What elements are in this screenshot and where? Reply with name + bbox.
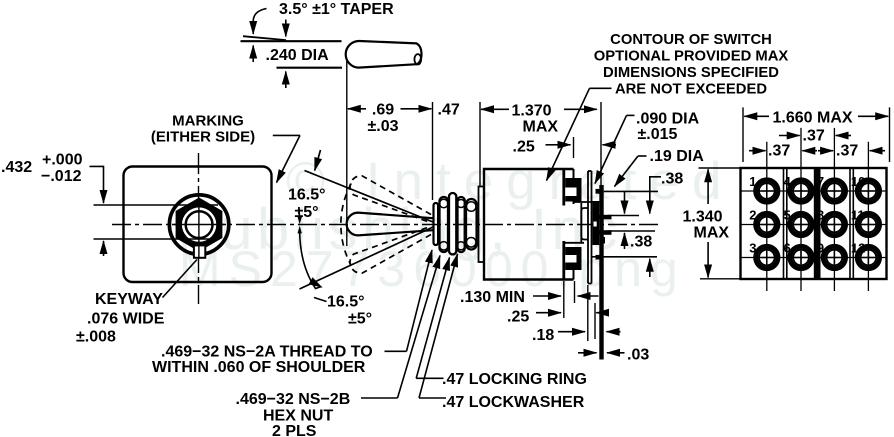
keyway leader bbox=[163, 260, 198, 298]
upper boss face bbox=[573, 169, 575, 204]
terminal 4 bbox=[790, 180, 812, 202]
center terminal through plate bbox=[593, 201, 600, 245]
svg-text:.47: .47 bbox=[438, 102, 460, 119]
svg-text:1.660 MAX: 1.660 MAX bbox=[773, 110, 853, 127]
svg-text:.37: .37 bbox=[836, 143, 858, 160]
svg-text:1: 1 bbox=[749, 174, 756, 189]
.38 middle arrows bbox=[624, 233, 626, 249]
.38 upper dim line with arrows bbox=[649, 190, 651, 214]
taper dim arrows left pair bbox=[252, 21, 254, 34]
lever tip detail outline bbox=[346, 41, 422, 68]
svg-text:2: 2 bbox=[749, 208, 756, 223]
svg-text:.18: .18 bbox=[532, 327, 554, 344]
svg-text:9: 9 bbox=[817, 241, 824, 256]
upper screw head bbox=[565, 178, 581, 202]
.090 dia leader bbox=[627, 114, 635, 116]
svg-text:±5°: ±5° bbox=[295, 204, 319, 221]
lockwasher leader bbox=[419, 397, 446, 399]
dimension 1.370 line bbox=[481, 108, 509, 110]
recessed face line bbox=[580, 203, 582, 244]
terminal 9 bbox=[823, 246, 845, 268]
svg-text:±.008: ±.008 bbox=[76, 329, 116, 346]
svg-text:.47 LOCKING RING: .47 LOCKING RING bbox=[442, 371, 587, 388]
svg-text:.432: .432 bbox=[1, 159, 32, 176]
hex nut leader bbox=[361, 397, 398, 399]
hex nut ring 2 bbox=[466, 199, 477, 250]
lower terminal stub line bbox=[592, 256, 658, 258]
svg-text:1.340: 1.340 bbox=[683, 209, 723, 226]
lockwasher ring 2 bbox=[458, 197, 465, 252]
column separator 2 bbox=[849, 169, 851, 278]
svg-text:.38: .38 bbox=[661, 171, 683, 188]
upper terminal stub line bbox=[604, 190, 658, 192]
svg-text:6: 6 bbox=[784, 241, 791, 256]
terminal bottom line bbox=[608, 230, 655, 232]
extension lines below body bbox=[563, 281, 565, 318]
dashed throw arc bbox=[341, 184, 351, 266]
svg-text:3: 3 bbox=[749, 241, 756, 256]
svg-text:.37: .37 bbox=[768, 143, 790, 160]
svg-text:5: 5 bbox=[784, 208, 791, 223]
panel vertical center line bbox=[198, 153, 200, 304]
svg-text:10: 10 bbox=[851, 174, 865, 189]
body right face upper bbox=[562, 169, 565, 206]
body face extension line bbox=[479, 102, 481, 186]
svg-text:8: 8 bbox=[817, 208, 824, 223]
svg-text:11: 11 bbox=[851, 208, 865, 223]
upper dashed lever position bbox=[350, 176, 431, 222]
terminal 7 bbox=[823, 180, 845, 202]
panel horizontal center line (main axis) bbox=[112, 224, 658, 226]
locking ring (small) bbox=[434, 203, 439, 245]
dia dim arrows right pair bbox=[285, 20, 287, 37]
terminal plate bbox=[587, 171, 589, 284]
hex nut ring 1 bbox=[449, 193, 456, 254]
svg-text:±5°: ±5° bbox=[348, 311, 372, 328]
bushing outer circle bbox=[169, 195, 228, 254]
terminal 3 bbox=[756, 246, 778, 268]
rear body outline bbox=[741, 168, 887, 279]
keyway notch bbox=[194, 245, 205, 257]
locking ring leader bbox=[416, 377, 443, 379]
body right face lower bbox=[562, 241, 565, 280]
row center lines bbox=[742, 190, 886, 192]
.25 dimension bbox=[536, 312, 561, 314]
terminal 1 bbox=[756, 180, 778, 202]
.130 min dimension bbox=[533, 295, 561, 297]
svg-text:MAX: MAX bbox=[694, 225, 730, 242]
lower dashed lever position bbox=[350, 227, 431, 273]
svg-text:ARE NOT EXCEEDED: ARE NOT EXCEEDED bbox=[615, 82, 767, 98]
svg-text:+.000: +.000 bbox=[42, 152, 83, 169]
body outline bbox=[484, 169, 574, 280]
svg-text:16.5°: 16.5° bbox=[288, 187, 326, 204]
svg-text:.37: .37 bbox=[803, 128, 825, 145]
marking leader bbox=[273, 134, 300, 136]
svg-text:.69: .69 bbox=[372, 102, 394, 119]
taper reference sloped line bbox=[243, 36, 286, 40]
board extension line up bbox=[600, 102, 602, 185]
svg-text:1.370: 1.370 bbox=[512, 103, 552, 120]
lower shelf line bbox=[564, 242, 584, 244]
center terminal bracket bbox=[581, 208, 588, 240]
center terminal upper bar bbox=[594, 215, 612, 220]
svg-text:.130 MIN: .130 MIN bbox=[460, 289, 525, 306]
terminal 11 bbox=[857, 213, 879, 235]
svg-text:.469−32 NS−2A THREAD TO: .469−32 NS−2A THREAD TO bbox=[161, 344, 373, 361]
.37 right dimension bbox=[870, 150, 885, 152]
.38 upper bracket bbox=[650, 177, 661, 190]
svg-text:.03: .03 bbox=[627, 347, 649, 364]
column center lines bbox=[766, 142, 768, 291]
svg-text:.25: .25 bbox=[513, 139, 535, 156]
dimension .69 bbox=[348, 108, 366, 110]
lower 16.5 arc with arrows bbox=[298, 226, 302, 234]
svg-text:KEYWAY: KEYWAY bbox=[95, 291, 163, 308]
svg-text:.076 WIDE: .076 WIDE bbox=[87, 311, 165, 328]
lower label tick bbox=[314, 298, 327, 302]
.37 top dimension bbox=[779, 135, 800, 137]
.19 dia leader bbox=[638, 155, 647, 157]
.240 dia lower extension line bbox=[277, 67, 343, 69]
svg-text:MS27736000.png: MS27736000.png bbox=[179, 241, 686, 297]
hole crosshair bbox=[198, 198, 200, 252]
lower screw head bbox=[565, 247, 581, 270]
terminal top line bbox=[608, 215, 639, 217]
.37 left dimension bbox=[749, 150, 766, 152]
svg-text:7: 7 bbox=[817, 174, 824, 189]
svg-text:12: 12 bbox=[851, 241, 865, 256]
svg-text:±.015: ±.015 bbox=[638, 126, 678, 143]
svg-text:16.5°: 16.5° bbox=[327, 294, 365, 311]
svg-text:4: 4 bbox=[784, 174, 792, 189]
svg-text:.090 DIA: .090 DIA bbox=[636, 111, 700, 128]
svg-text:MARKING: MARKING bbox=[172, 113, 244, 130]
svg-text:CONTOUR OF SWITCH: CONTOUR OF SWITCH bbox=[610, 32, 772, 48]
svg-text:DIMENSIONS SPECIFIED: DIMENSIONS SPECIFIED bbox=[603, 65, 779, 81]
hex nut (front view, filled) bbox=[177, 199, 222, 251]
terminal 10 bbox=[857, 180, 879, 202]
svg-text:3.5° ±1° TAPER: 3.5° ±1° TAPER bbox=[279, 1, 394, 18]
upper shelf line bbox=[574, 201, 603, 203]
lever base end ellipse bbox=[414, 54, 421, 64]
.25 top leader bbox=[546, 144, 557, 146]
lower throw boundary line bbox=[300, 227, 434, 289]
upper 16.5 arc with arrows bbox=[315, 150, 321, 171]
lower boss face bbox=[573, 268, 575, 280]
thread leader bbox=[385, 350, 407, 352]
terminal nub bbox=[602, 237, 605, 244]
terminal 2 bbox=[756, 213, 778, 235]
svg-text:MAX: MAX bbox=[523, 119, 559, 136]
.18 dimension bbox=[558, 331, 585, 333]
contour leader bbox=[590, 87, 612, 89]
taper leader curve bbox=[253, 9, 266, 22]
svg-text:.469−32 NS−2B: .469−32 NS−2B bbox=[236, 391, 351, 408]
dimension .432 bracket and arrows bbox=[90, 166, 104, 188]
svg-text:−.012: −.012 bbox=[41, 168, 82, 185]
lever extension line to .69 dim bbox=[346, 61, 348, 247]
lockwasher ring 1 bbox=[440, 197, 449, 252]
bushing extension line bbox=[432, 102, 434, 200]
svg-text:.38: .38 bbox=[630, 234, 652, 251]
svg-text:WITHIN .060 OF SHOULDER: WITHIN .060 OF SHOULDER bbox=[152, 359, 366, 376]
solid lever (side view) bbox=[347, 213, 433, 236]
dimension .432 extension lines bbox=[94, 204, 219, 206]
terminal board bbox=[599, 185, 603, 360]
.240 dia upper extension line bbox=[241, 40, 342, 42]
upper throw boundary line bbox=[305, 171, 434, 223]
bushing shoulder plate bbox=[479, 187, 485, 263]
terminal 8 bbox=[823, 213, 845, 235]
lower terminal stub nub bbox=[596, 255, 604, 260]
svg-text:.19 DIA: .19 DIA bbox=[650, 148, 705, 165]
svg-text:.25: .25 bbox=[507, 309, 529, 326]
center terminal lower bar bbox=[594, 230, 612, 235]
1.660 dimension line bbox=[744, 115, 769, 117]
svg-text:2 PLS: 2 PLS bbox=[272, 423, 317, 437]
svg-text:OPTIONAL PROVIDED MAX: OPTIONAL PROVIDED MAX bbox=[594, 49, 789, 65]
upper terminal stub nub bbox=[596, 189, 604, 194]
svg-text:.240 DIA: .240 DIA bbox=[266, 47, 330, 64]
svg-text:±.03: ±.03 bbox=[367, 118, 398, 135]
column separator 1 bbox=[783, 169, 785, 278]
terminal 6 bbox=[790, 246, 812, 268]
panel front view outline bbox=[124, 167, 272, 283]
terminal 5 bbox=[790, 213, 812, 235]
center divider bar bbox=[814, 169, 821, 278]
1.340 dimension bbox=[699, 167, 740, 169]
1.660 extension lines bbox=[742, 107, 744, 162]
thread relief circle bbox=[182, 207, 216, 241]
terminals grid bbox=[756, 180, 880, 269]
bushing hole circle bbox=[186, 211, 213, 238]
terminal 12 bbox=[857, 246, 879, 268]
svg-text:.47 LOCKWASHER: .47 LOCKWASHER bbox=[442, 394, 585, 411]
svg-text:(EITHER SIDE): (EITHER SIDE) bbox=[151, 129, 255, 146]
svg-text:HEX NUT: HEX NUT bbox=[263, 408, 333, 425]
.03 dimension bbox=[578, 352, 597, 354]
